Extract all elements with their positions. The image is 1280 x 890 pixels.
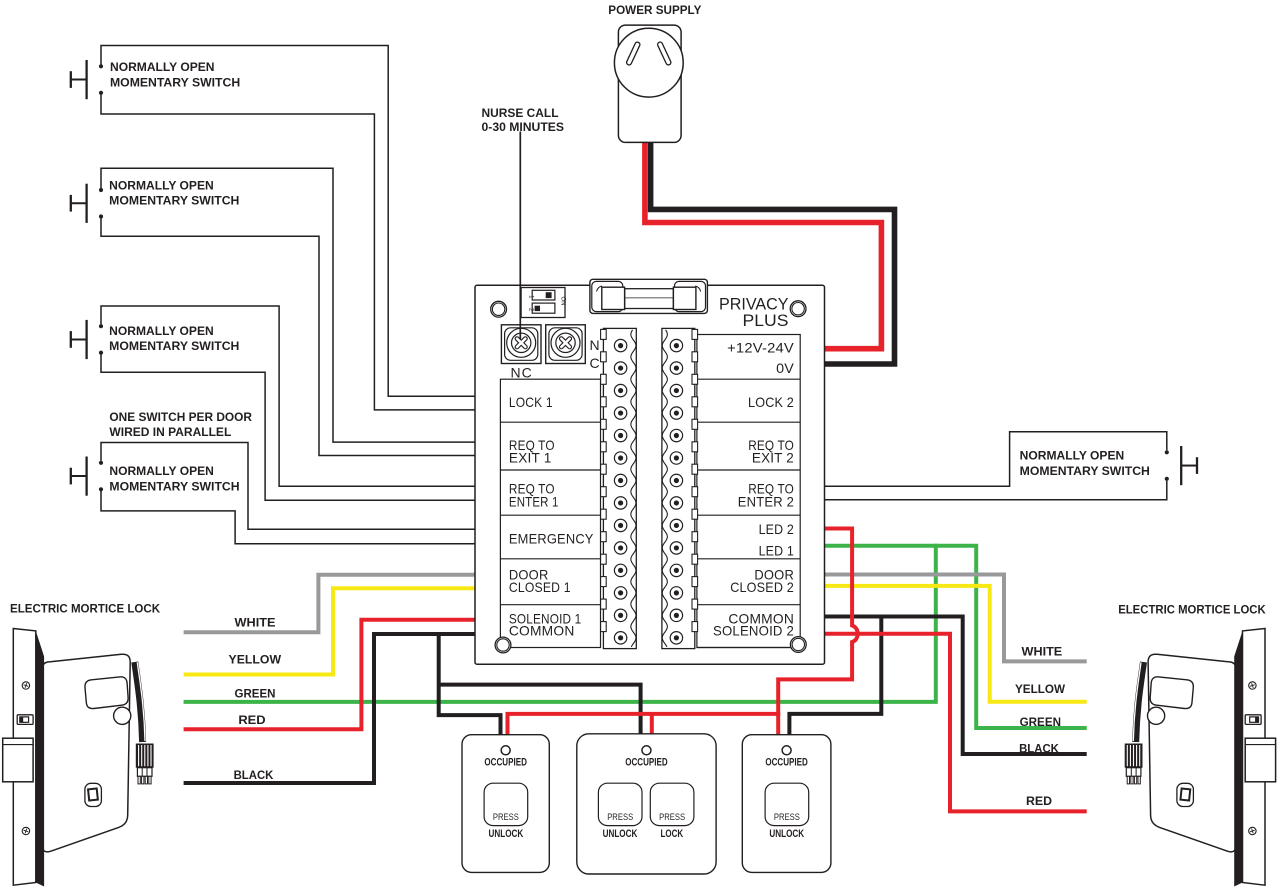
nurse call pointer line into NC screw <box>519 132 521 340</box>
wire switch SW1 top contact to LOCK 1 <box>101 46 476 397</box>
svg-text:MOMENTARY SWITCH: MOMENTARY SWITCH <box>110 75 240 89</box>
svg-text:N: N <box>590 337 600 353</box>
svg-text:UNLOCK: UNLOCK <box>769 828 804 840</box>
svg-text:UNLOCK: UNLOCK <box>603 828 638 840</box>
wire switch SW2 bottom contact to REQ TO EXIT 1 <box>101 218 476 455</box>
svg-text:NURSE CALL: NURSE CALL <box>482 106 559 120</box>
left column terminal labels <box>509 394 594 638</box>
wire red power +12V-24V <box>645 138 882 349</box>
wire grey right lock WHITE from DOOR CLOSED 2 <box>823 575 1087 662</box>
NC screw terminal 2 (nurse call) <box>546 325 586 364</box>
svg-text:OCCUPIED: OCCUPIED <box>484 756 527 768</box>
right terminal strip (14 screw terminals) <box>662 328 698 648</box>
svg-text:NORMALLY OPEN: NORMALLY OPEN <box>109 178 214 192</box>
occupied indicator panel 2 (middle, PRESS UNLOCK / PRESS LOCK) <box>577 734 716 874</box>
svg-text:LED 1: LED 1 <box>759 542 794 558</box>
svg-text:LED 2: LED 2 <box>759 521 794 537</box>
wire switch SW2 top contact to REQ TO EXIT 1 <box>101 168 476 442</box>
svg-text:EXIT 1: EXIT 1 <box>509 450 552 466</box>
svg-text:YELLOW: YELLOW <box>229 655 282 667</box>
PCB board Privacy Plus controller outline <box>475 285 825 664</box>
svg-text:BLACK: BLACK <box>234 770 274 782</box>
wire red LED 2 to OCCUPIED panels (with hop over red) <box>778 529 858 738</box>
wire switch SW4 bottom contact to EMERGENCY <box>101 491 476 544</box>
svg-text:LOCK 2: LOCK 2 <box>748 394 794 410</box>
svg-text:RED: RED <box>238 715 265 727</box>
left terminal label box rows <box>500 379 600 647</box>
electric mortice lock (right, mirrored) <box>1125 629 1276 887</box>
svg-text:WIRED IN PARALLEL: WIRED IN PARALLEL <box>109 425 231 439</box>
svg-text:ENTER 1: ENTER 1 <box>509 493 559 509</box>
svg-text:MOMENTARY SWITCH: MOMENTARY SWITCH <box>109 194 239 208</box>
svg-text:WHITE: WHITE <box>235 617 276 629</box>
svg-text:0-30 MINUTES: 0-30 MINUTES <box>482 120 565 134</box>
svg-text:LOCK 1: LOCK 1 <box>509 394 553 410</box>
svg-text:RED: RED <box>1026 796 1052 808</box>
svg-text:PRESS: PRESS <box>659 812 685 822</box>
wire switch SW5 top contact to REQ TO ENTER 2 <box>823 432 1167 487</box>
svg-text:PRESS: PRESS <box>774 812 800 822</box>
svg-text:COMMON: COMMON <box>509 622 575 638</box>
svg-text:NORMALLY OPEN: NORMALLY OPEN <box>109 324 214 338</box>
svg-text:PLUS: PLUS <box>743 312 789 330</box>
svg-text:OCCUPIED: OCCUPIED <box>765 756 808 768</box>
svg-text:NC: NC <box>511 365 533 381</box>
svg-text:PRESS: PRESS <box>607 812 633 822</box>
svg-text:UNLOCK: UNLOCK <box>489 828 524 840</box>
svg-text:CLOSED 1: CLOSED 1 <box>509 579 571 595</box>
svg-text:GREEN: GREEN <box>235 689 276 701</box>
DIP switch (timer setting 1/2 ON) <box>521 288 565 318</box>
wire black left lock BLACK from COMMON <box>184 634 476 783</box>
svg-text:PRIVACY: PRIVACY <box>719 296 789 314</box>
svg-text:PRESS: PRESS <box>493 812 519 822</box>
wire switch SW1 bottom contact to LOCK 1 <box>101 95 476 410</box>
wire green branch junction to left lock GREEN stub <box>184 544 936 702</box>
wire switch SW3 bottom contact to REQ TO ENTER 1 <box>101 355 476 501</box>
svg-text:YELLOW: YELLOW <box>1015 684 1065 696</box>
svg-text:NORMALLY OPEN: NORMALLY OPEN <box>1020 449 1125 463</box>
wire black branch to left OCCUPIED panel <box>439 632 501 737</box>
wire switch SW5 bottom contact to REQ TO ENTER 2 <box>823 481 1167 500</box>
right terminal label box rows <box>697 335 800 648</box>
svg-text:0V: 0V <box>776 360 794 376</box>
pushbutton switch SW3 (normally open momentary) <box>71 320 103 359</box>
svg-text:WHITE: WHITE <box>1022 647 1063 659</box>
power supply plug (mains socket face) <box>614 25 683 142</box>
pushbutton switch SW1 (normally open momentary) <box>71 60 103 99</box>
fuse F1 with holder <box>590 279 708 313</box>
electric mortice lock (left) <box>3 629 154 887</box>
pushbutton switch SW4 (normally open momentary) <box>71 457 103 496</box>
svg-text:+12V-24V: +12V-24V <box>727 340 794 356</box>
svg-text:EMERGENCY: EMERGENCY <box>509 530 594 546</box>
wire red right lock RED from SOLENOID 2 <box>823 634 1087 812</box>
svg-text:POWER SUPPLY: POWER SUPPLY <box>608 3 701 17</box>
wire black right lock BLACK from COMMON SOLENOID 2 <box>823 617 1087 755</box>
svg-text:MOMENTARY SWITCH: MOMENTARY SWITCH <box>109 339 239 353</box>
svg-text:CLOSED 2: CLOSED 2 <box>730 579 794 595</box>
svg-text:C: C <box>590 355 600 371</box>
occupied indicator panel 3 (right, PRESS UNLOCK) <box>742 735 831 873</box>
svg-text:EXIT 2: EXIT 2 <box>752 450 794 466</box>
wire grey left lock WHITE from DOOR CLOSED 1 <box>184 575 476 633</box>
svg-text:MOMENTARY SWITCH: MOMENTARY SWITCH <box>1020 464 1150 478</box>
svg-text:ENTER 2: ENTER 2 <box>738 493 794 509</box>
svg-text:ELECTRIC MORTICE LOCK: ELECTRIC MORTICE LOCK <box>1118 603 1266 617</box>
left terminal strip (14 screw terminals) <box>601 328 637 648</box>
wire red branch to middle OCCUPIED panel <box>650 714 654 737</box>
svg-text:OCCUPIED: OCCUPIED <box>625 756 668 768</box>
NC screw terminal 1 (nurse call) <box>501 325 541 364</box>
wire green LED 1 to both locks (long run) <box>823 546 1087 728</box>
svg-text:GREEN: GREEN <box>1020 717 1061 729</box>
svg-text:NORMALLY OPEN: NORMALLY OPEN <box>110 60 215 74</box>
svg-text:LOCK: LOCK <box>660 828 683 840</box>
wire black power 0V <box>651 138 895 364</box>
svg-text:MOMENTARY SWITCH: MOMENTARY SWITCH <box>109 479 239 493</box>
svg-text:ONE SWITCH PER DOOR: ONE SWITCH PER DOOR <box>109 410 252 424</box>
right column terminal labels <box>713 340 794 639</box>
wire red left lock RED from SOLENOID 1 <box>184 620 476 730</box>
wire black branch to right OCCUPIED panel <box>789 617 881 738</box>
pushbutton switch SW5 (normally open momentary, right) <box>1165 446 1197 485</box>
wire switch SW3 top contact to REQ TO ENTER 1 <box>101 306 476 486</box>
svg-text:NORMALLY OPEN: NORMALLY OPEN <box>109 464 214 478</box>
svg-text:SOLENOID 2: SOLENOID 2 <box>713 622 794 638</box>
wire red branch along panels <box>508 714 781 737</box>
PCB mounting holes (4 corners) <box>491 301 806 653</box>
svg-text:ON: ON <box>560 297 566 306</box>
wire switch SW4 top contact to EMERGENCY <box>101 443 476 530</box>
wire black branch to middle OCCUPIED panel <box>439 685 641 737</box>
wire yellow left lock YELLOW <box>184 588 476 674</box>
svg-text:ELECTRIC MORTICE LOCK: ELECTRIC MORTICE LOCK <box>10 602 160 616</box>
pushbutton switch SW2 (normally open momentary) <box>71 184 103 223</box>
occupied indicator panel 1 (left, PRESS UNLOCK) <box>462 735 549 873</box>
svg-text:BLACK: BLACK <box>1019 743 1059 755</box>
wire yellow right lock YELLOW <box>823 586 1087 702</box>
